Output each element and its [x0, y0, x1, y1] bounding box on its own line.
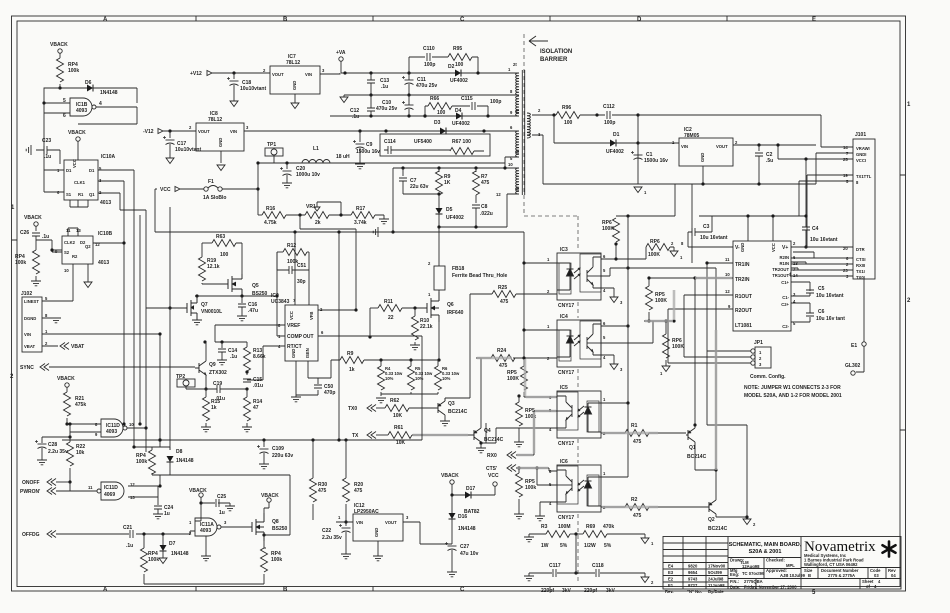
ground [166, 158, 174, 164]
wire bottom row to pin12 [439, 194, 519, 227]
capacitor C28 2.2u 35v [42, 437, 70, 443]
wire RT/CT [247, 346, 285, 380]
capacitor C110 100p snubber top [409, 57, 448, 73]
capacitor C118 220pf 3kV [576, 573, 645, 577]
op-amp gate IC11A 4093 [195, 518, 221, 536]
wire to IC2 [638, 142, 679, 144]
IC LT1081 [733, 241, 791, 331]
diode D6 1N4148 [87, 85, 93, 92]
svg-text:VBAT: VBAT [71, 344, 84, 350]
wire bundle verticals left-center [120, 170, 146, 452]
svg-text:470p: 470p [324, 390, 335, 396]
revision table [663, 537, 728, 590]
svg-text:IC10B: IC10B [98, 231, 113, 237]
svg-text:13: 13 [76, 228, 81, 233]
IC IC10B 4013 [62, 236, 93, 264]
svg-text:1u: 1u [164, 511, 170, 517]
wire sec pin2 [532, 114, 556, 116]
wires IC5 [486, 411, 557, 443]
wire V+ pin2 [791, 246, 853, 248]
capacitor C1 1500u 16v [631, 151, 643, 160]
svg-text:R2: R2 [72, 254, 78, 259]
svg-text:100: 100 [564, 120, 573, 126]
svg-text:100k: 100k [68, 68, 79, 74]
svg-text:100: 100 [455, 62, 464, 68]
svg-text:E: E [812, 17, 816, 23]
wire GND1 [816, 153, 853, 184]
svg-text:V+: V+ [782, 245, 788, 251]
svg-text:19: 19 [843, 173, 848, 178]
resistor R19 12.1k [201, 243, 203, 257]
svg-text:10: 10 [725, 272, 730, 277]
IC2 78M05 [679, 138, 733, 166]
svg-text:TR2IN: TR2IN [735, 277, 750, 283]
wire VCC1 [778, 145, 853, 159]
svg-text:E3: E3 [668, 570, 674, 575]
svg-text:S1: S1 [66, 192, 72, 197]
svg-text:100p: 100p [604, 120, 615, 126]
wire C1+ C1- [791, 282, 810, 296]
wire y183 rail [543, 184, 816, 263]
svg-text:78M05: 78M05 [684, 133, 700, 139]
wire c26 tap [36, 240, 62, 252]
svg-text:"N" No.: "N" No. [687, 589, 702, 594]
svg-text:+VA: +VA [336, 50, 346, 56]
primary winding 3 [516, 131, 519, 157]
svg-text:J101: J101 [855, 132, 866, 138]
capacitor C4 10u16vtant [805, 159, 807, 247]
svg-text:1500u 16v: 1500u 16v [644, 158, 668, 164]
svg-text:Q8: Q8 [272, 519, 279, 525]
diode D5 UF4002 [436, 208, 443, 214]
diode D1 UF4002 [554, 115, 610, 143]
svg-text:R61: R61 [394, 425, 403, 431]
svg-text:VBACK: VBACK [68, 130, 86, 136]
svg-text:VBACK: VBACK [24, 215, 42, 221]
resistor R95 100 [448, 54, 472, 61]
svg-text:470u 25v: 470u 25v [416, 83, 437, 89]
svg-text:GND: GND [292, 81, 297, 90]
wire VFB up [318, 309, 356, 311]
svg-text:100: 100 [437, 110, 446, 116]
svg-text:R63: R63 [216, 234, 225, 240]
svg-text:TX1I: TX1I [856, 269, 865, 274]
resistor RP4 100k / diode D8 parallel [152, 440, 170, 450]
capacitor C13 .1u [367, 80, 375, 83]
diode D2 UF4002 [455, 70, 461, 77]
svg-text:R1OUT: R1OUT [735, 294, 752, 300]
ground [26, 145, 31, 155]
svg-text:CLK2: CLK2 [64, 240, 76, 245]
svg-text:C110: C110 [423, 46, 435, 52]
wires J101 mid pins [799, 175, 853, 247]
ground [379, 219, 389, 224]
svg-text:Rev.: Rev. [665, 589, 674, 594]
capacitor C10 470u 25v [402, 101, 414, 110]
IC12 LP2950AC [353, 514, 403, 541]
wires LT1081 left pins [649, 263, 733, 428]
capacitor C8 .022u [472, 205, 480, 208]
svg-text:R25: R25 [498, 285, 507, 291]
svg-text:10: 10 [64, 268, 69, 273]
capacitor C9 1500u 16v [359, 131, 361, 142]
svg-text:D1: D1 [613, 132, 620, 138]
svg-text:D5: D5 [446, 207, 453, 213]
svg-text:UC3843: UC3843 [271, 299, 290, 305]
svg-text:C4: C4 [812, 226, 819, 232]
svg-text:100K: 100K [672, 344, 684, 350]
svg-text:VRAWI: VRAWI [856, 146, 870, 151]
svg-text:5%: 5% [560, 543, 568, 549]
svg-text:C109: C109 [272, 446, 284, 452]
svg-text:-V12: -V12 [143, 129, 154, 135]
ground left [344, 95, 348, 97]
svg-text:UF4002: UF4002 [446, 215, 464, 221]
svg-text:TR1OUT: TR1OUT [772, 273, 789, 278]
svg-text:2.2u 35v: 2.2u 35v [48, 449, 68, 455]
transistor Q5 BS250 [228, 274, 242, 296]
svg-text:CNY17: CNY17 [558, 515, 574, 521]
wire bundle terminations [122, 422, 125, 425]
svg-text:C21: C21 [123, 525, 132, 531]
wires IC9 bottom [296, 360, 340, 397]
svg-text:B: B [283, 587, 288, 593]
svg-text:100M: 100M [558, 524, 571, 530]
svg-text:12: 12 [496, 192, 501, 197]
resistor R7 475 [475, 168, 477, 172]
svg-text:.1u: .1u [42, 234, 49, 240]
svg-text:220pf: 220pf [584, 588, 597, 594]
star logo [883, 542, 896, 557]
svg-text:475: 475 [499, 363, 508, 369]
svg-text:100K: 100K [602, 226, 614, 232]
svg-text:TC 07oct99: TC 07oct99 [742, 571, 765, 576]
svg-text:475: 475 [354, 488, 363, 494]
svg-text:CNY17: CNY17 [558, 303, 574, 309]
svg-text:R9: R9 [347, 351, 354, 357]
svg-text:RX0: RX0 [487, 453, 497, 459]
svg-text:VCCI: VCCI [856, 158, 866, 163]
isolation barrier arrow [529, 36, 548, 46]
wire OUT right [318, 336, 422, 440]
resistor R9b 1k [340, 357, 364, 364]
svg-text:TX: TX [352, 433, 359, 439]
svg-text:TP1: TP1 [267, 142, 276, 148]
svg-text:VBACK: VBACK [189, 488, 207, 494]
svg-text:10: 10 [508, 162, 513, 167]
resistor R24 475 [476, 357, 491, 359]
wire VRAW long [638, 115, 853, 147]
node row y296 [195, 295, 277, 297]
svg-text:BC214C: BC214C [484, 437, 504, 443]
capacitor C25 1u [201, 503, 230, 506]
long vertical x628 [627, 216, 629, 403]
svg-text:RP6: RP6 [650, 239, 660, 245]
svg-text:R2OUT: R2OUT [735, 308, 752, 314]
wire SYNC long [49, 366, 195, 368]
svg-text:C114: C114 [384, 139, 396, 145]
svg-text:CLK1: CLK1 [74, 180, 86, 185]
svg-text:VIN: VIN [305, 72, 312, 77]
svg-text:3kV: 3kV [606, 588, 616, 594]
wires IC10B [52, 228, 124, 283]
svg-text:R1IN: R1IN [779, 261, 789, 266]
svg-text:VOUT: VOUT [198, 129, 210, 134]
wire vertical x170 [169, 207, 171, 450]
resistor R62 10K [385, 405, 409, 412]
svg-text:1000u 10v: 1000u 10v [296, 172, 320, 178]
svg-text:R66: R66 [430, 96, 439, 102]
resistor RP4b 100k [33, 250, 40, 274]
svg-text:VIN: VIN [24, 332, 31, 337]
wire COMP left [277, 252, 285, 336]
svg-text:R96: R96 [562, 105, 571, 111]
svg-text:03: 03 [874, 573, 879, 578]
svg-text:of: of [866, 584, 871, 589]
svg-text:4013: 4013 [100, 200, 111, 206]
wire rail4 to IC8 [244, 130, 519, 132]
wires IC3 [524, 232, 557, 366]
svg-text:E2: E2 [668, 577, 674, 582]
svg-text:TX0I: TX0I [856, 275, 865, 280]
svg-text:100K: 100K [507, 376, 519, 382]
fuse F1 1A SloBlo [204, 186, 222, 192]
ground [355, 164, 365, 169]
svg-text:17Nov00: 17Nov00 [708, 564, 726, 569]
svg-text:4.75k: 4.75k [264, 220, 277, 226]
svg-text:D16: D16 [458, 514, 467, 520]
svg-text:VBACK: VBACK [57, 376, 75, 382]
svg-text:TX1TTL: TX1TTL [856, 174, 872, 179]
svg-text:IC5: IC5 [560, 385, 568, 391]
size/docnum row [801, 568, 901, 590]
svg-text:TR1IN: TR1IN [735, 262, 750, 268]
svg-text:Q2: Q2 [85, 244, 91, 249]
ground tap [381, 231, 393, 233]
ground [670, 251, 678, 257]
svg-text:D1: D1 [89, 168, 95, 173]
svg-text:MODEL S20A, AND 1-2 FOR MODEL: MODEL S20A, AND 1-2 FOR MODEL 2001 [744, 393, 842, 399]
capacitor C19 .01u [186, 388, 247, 390]
svg-text:5Oct99: 5Oct99 [708, 570, 723, 575]
svg-text:VN0010L: VN0010L [201, 309, 222, 315]
svg-text:1A SloBlo: 1A SloBlo [203, 195, 226, 201]
svg-text:D17: D17 [466, 486, 475, 492]
svg-text:CNY17: CNY17 [558, 370, 574, 376]
capacitor C6 10u 16v tant [806, 313, 814, 316]
potentiometer VR1 2k [305, 212, 329, 219]
svg-text:Date:: Date: [730, 585, 740, 590]
svg-text:BC214C: BC214C [708, 526, 728, 532]
svg-text:10u 16vtant: 10u 16vtant [816, 293, 844, 299]
resistor R20 475 [345, 440, 347, 478]
capacitor C18 10u10vtant [233, 73, 235, 79]
resistor R66 100 parallel branch [425, 106, 428, 116]
resistor R10 22.1k [414, 308, 416, 316]
svg-text:9820: 9820 [688, 564, 698, 569]
resistor R2 475 [601, 506, 625, 508]
wire left vertical x393 [392, 168, 394, 232]
wire VIN down to bus [62, 334, 422, 440]
svg-text:LP2950AC: LP2950AC [354, 509, 379, 515]
svg-text:C27: C27 [460, 544, 469, 550]
svg-text:Ferrite Bead Thru_Hole: Ferrite Bead Thru_Hole [452, 273, 508, 279]
capacitor C15 .01u [243, 379, 251, 382]
ground [610, 297, 618, 303]
svg-text:10u 16vtant: 10u 16vtant [700, 235, 728, 241]
svg-text:D2: D2 [448, 64, 455, 70]
opto IC3 CNY17 [557, 253, 601, 300]
resistor R16 4.75k [258, 214, 262, 216]
bottom rail [144, 583, 264, 585]
resistor R22 10k [69, 424, 71, 442]
svg-text:.1u: .1u [44, 154, 51, 160]
svg-text:R95: R95 [453, 46, 462, 52]
svg-text:VIN: VIN [230, 129, 237, 134]
test point TP2 [177, 379, 195, 387]
wire rail3 [330, 115, 519, 117]
svg-text:L1: L1 [313, 146, 319, 152]
svg-text:PWRON': PWRON' [20, 489, 40, 495]
svg-text:B: B [283, 17, 288, 23]
svg-text:R11: R11 [384, 299, 393, 305]
IC8 78L12 [196, 123, 244, 151]
svg-text:GND: GND [291, 349, 296, 358]
svg-text:D4: D4 [455, 108, 462, 114]
svg-text:C115: C115 [461, 96, 473, 102]
svg-text:10u 16vtant: 10u 16vtant [810, 237, 838, 243]
primary winding 4 [516, 168, 519, 194]
svg-text:10%: 10% [385, 376, 394, 381]
svg-text:Q9: Q9 [209, 362, 216, 368]
svg-text:Q6: Q6 [447, 302, 454, 308]
resistor RP5 100k pulldown2 [518, 468, 520, 473]
capacitor C20 1000u 10v [285, 161, 288, 164]
connector J101 [853, 139, 875, 279]
node vertical x638 [637, 115, 639, 184]
wire pin1 to x628 [601, 402, 628, 404]
svg-text:TR2OUT: TR2OUT [772, 267, 789, 272]
ground [31, 281, 41, 286]
diode D17 BAT82 [465, 492, 471, 499]
svg-text:12Aug98: 12Aug98 [742, 564, 760, 569]
svg-text:R24: R24 [497, 348, 506, 354]
resistor R12 100k [277, 251, 283, 253]
svg-text:BC214C: BC214C [687, 454, 707, 460]
svg-text:S2: S2 [64, 250, 70, 255]
ground [217, 165, 225, 171]
svg-text:1N4148: 1N4148 [171, 551, 189, 557]
capacitor C14 .1u [221, 342, 223, 348]
svg-text:475: 475 [481, 180, 490, 186]
jumper JP1 [755, 347, 771, 368]
wire vertical mid [338, 232, 340, 440]
svg-text:ISEN: ISEN [305, 348, 310, 358]
svg-text:R69: R69 [586, 524, 595, 530]
side zone ticks [12, 175, 906, 430]
capacitor C7 22u 63v [402, 168, 404, 176]
capacitor C109 220u 63v [263, 440, 265, 447]
svg-text:E1: E1 [668, 583, 674, 588]
svg-text:.1u: .1u [126, 543, 133, 549]
svg-text:1u: 1u [219, 510, 225, 516]
svg-text:22.1k: 22.1k [420, 324, 433, 330]
svg-text:8.66k: 8.66k [253, 354, 266, 360]
capacitor C117 220pf 3kV [524, 576, 534, 581]
svg-text:10k: 10k [76, 450, 85, 456]
svg-text:A: A [103, 587, 108, 593]
svg-text:100p: 100p [490, 99, 501, 105]
svg-text:C28: C28 [48, 442, 57, 448]
svg-text:C6: C6 [818, 309, 825, 315]
isolation barrier dashed line vertical upper [523, 34, 525, 216]
svg-text:VOUT: VOUT [716, 144, 728, 149]
capacitor C22 2.2u 35v [339, 524, 351, 533]
top zone ticks [196, 16, 727, 21]
transistor Q9 ZTX302 [199, 361, 206, 375]
ground [84, 282, 92, 288]
svg-text:475k: 475k [75, 402, 86, 408]
svg-text:ONOFF: ONOFF [22, 480, 40, 486]
transistor Q4 BC214C [474, 428, 481, 442]
svg-text:10%: 10% [415, 376, 424, 381]
opto IC4 CNY17 [557, 320, 601, 367]
svg-text:C23: C23 [42, 138, 51, 144]
svg-text:Q2: Q2 [708, 517, 715, 523]
isolation barrier dashed step [524, 215, 578, 217]
resistor R69 470k [583, 531, 607, 538]
svg-text:CTSI: CTSI [856, 257, 866, 262]
svg-text:VOUT: VOUT [272, 72, 284, 77]
primary winding 2 [516, 96, 519, 116]
svg-text:VOUT: VOUT [385, 520, 397, 525]
wires right side receiver pins [790, 258, 814, 276]
op-amp gate IC11D 4093 [101, 419, 127, 437]
svg-text:UF5400: UF5400 [414, 139, 432, 145]
resistor R63 100 [202, 242, 212, 244]
svg-text:13: 13 [130, 495, 135, 500]
svg-text:10: 10 [129, 422, 134, 427]
svg-text:R2: R2 [631, 497, 638, 503]
wire gnd rail2 [348, 94, 519, 96]
svg-text:R1: R1 [78, 192, 84, 197]
svg-text:CNY17: CNY17 [558, 441, 574, 447]
wires IC2 out [703, 145, 816, 184]
svg-text:IC6: IC6 [560, 459, 568, 465]
svg-text:C1+: C1+ [781, 280, 789, 285]
svg-text:100k: 100k [271, 557, 282, 563]
wires JP1 [668, 351, 751, 363]
svg-text:.1u: .1u [381, 84, 388, 90]
wires IC6 [537, 468, 557, 516]
svg-text:GND: GND [218, 138, 223, 147]
resistor RP4 100k q8 [264, 541, 266, 548]
opto IC5 CNY17 [557, 391, 601, 438]
connector J102 [22, 297, 42, 352]
svg-text:P.N.:: P.N.: [730, 579, 739, 584]
capacitor C112 100p [607, 111, 610, 119]
wire Q6 source to sense bus [438, 322, 440, 360]
svg-text:VIN: VIN [356, 520, 363, 525]
svg-text:VCC: VCC [488, 473, 499, 479]
svg-text:JP1: JP1 [754, 340, 763, 346]
svg-text:24Jul98: 24Jul98 [708, 577, 724, 582]
svg-text:DGND: DGND [24, 316, 36, 321]
svg-text:D: D [637, 17, 642, 23]
capacitor C24 1u [154, 506, 162, 509]
ground sense bus [381, 394, 438, 396]
svg-text:1N4148: 1N4148 [458, 526, 476, 532]
